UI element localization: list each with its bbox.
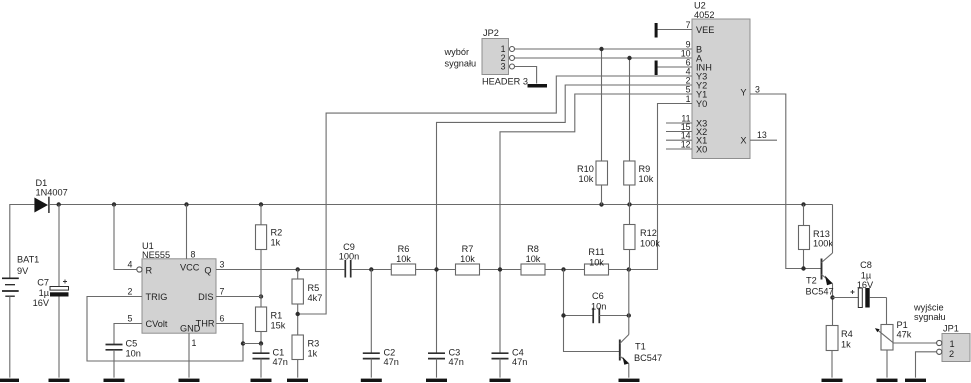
svg-text:1N4007: 1N4007 — [36, 188, 68, 198]
node B-R10 — [599, 47, 603, 51]
svg-text:1µ: 1µ — [39, 288, 50, 298]
wire 9V rail — [49, 204, 833, 206]
svg-text:Q: Q — [204, 266, 211, 276]
ground C1 — [251, 379, 272, 382]
label wybor sygnalu — [444, 47, 477, 69]
resistor R8 — [521, 244, 545, 275]
wire JP1 pin2 to ground — [916, 352, 937, 378]
svg-text:4: 4 — [128, 260, 133, 270]
svg-text:6: 6 — [220, 314, 225, 324]
svg-text:4052: 4052 — [694, 10, 714, 20]
ground JP1 — [905, 379, 926, 382]
pin circle JP1-2 — [937, 349, 942, 354]
svg-text:16V: 16V — [33, 298, 50, 308]
svg-text:100k: 100k — [813, 239, 833, 249]
ground P1 — [877, 379, 898, 382]
svg-text:Y0: Y0 — [696, 99, 707, 109]
label wyjscie sygnalu — [913, 303, 946, 323]
svg-text:BC547: BC547 — [634, 353, 662, 363]
node T2 emitter-C8 — [830, 295, 834, 299]
svg-text:CVolt: CVolt — [146, 319, 168, 329]
svg-text:sygnału: sygnału — [914, 312, 946, 322]
svg-text:R10: R10 — [577, 164, 594, 174]
node rail-pin4 — [112, 202, 116, 206]
wire R8 node down to T1 base — [564, 270, 620, 352]
svg-text:wyjście: wyjście — [913, 303, 944, 313]
svg-text:GND: GND — [180, 324, 201, 334]
svg-text:7: 7 — [220, 287, 225, 297]
node R13-T2 base — [801, 266, 805, 270]
svg-text:R6: R6 — [398, 244, 410, 254]
ground C5 — [104, 379, 125, 382]
svg-text:VCC: VCC — [180, 263, 200, 273]
svg-text:47n: 47n — [512, 357, 527, 367]
node Q-R5 — [296, 267, 300, 271]
svg-text:X0: X0 — [696, 145, 707, 155]
svg-text:2: 2 — [128, 287, 133, 297]
svg-text:13: 13 — [757, 130, 767, 140]
wire Y0 to T1 collector node — [629, 104, 692, 270]
wire Y2 to filter node 2 and C3 — [437, 85, 693, 353]
wire TRIG THR loop — [87, 297, 243, 362]
wire tap to C1 — [243, 343, 261, 345]
wire Q output line — [216, 269, 629, 271]
wire JP2 pin3 to ground — [515, 67, 537, 84]
svg-text:D1: D1 — [36, 178, 48, 188]
svg-text:JP1: JP1 — [943, 324, 959, 334]
svg-text:1: 1 — [950, 339, 955, 349]
node rail-R9-R12 — [627, 202, 631, 206]
svg-text:VEE: VEE — [696, 25, 714, 35]
wire A select — [515, 57, 693, 59]
node R6-R7-C3 — [434, 267, 438, 271]
svg-text:C7: C7 — [37, 278, 49, 288]
svg-text:R13: R13 — [813, 229, 830, 239]
ground R4 — [822, 379, 843, 382]
svg-text:3: 3 — [501, 62, 506, 72]
svg-text:R12: R12 — [640, 228, 657, 238]
svg-text:R1: R1 — [271, 311, 283, 321]
svg-text:10n: 10n — [126, 349, 141, 359]
svg-text:100n: 100n — [339, 251, 359, 261]
resistor R4 — [826, 326, 853, 378]
ground C3 — [426, 379, 447, 382]
svg-text:R: R — [146, 266, 153, 276]
svg-text:15k: 15k — [271, 321, 286, 331]
wire pin X2 stub — [666, 131, 692, 133]
node DIS-R1 — [259, 294, 263, 298]
wire Y3 to R5-R3 node — [298, 76, 692, 314]
resistor R7 — [456, 244, 480, 275]
svg-text:R4: R4 — [841, 329, 853, 339]
capacitor C7 — [33, 205, 69, 378]
transistor T2 — [806, 205, 834, 326]
svg-text:1k: 1k — [841, 340, 851, 350]
connector JP2 — [482, 28, 528, 87]
ground C7 — [49, 379, 70, 382]
wire Y1 to filter node 3 and C4 — [500, 94, 692, 353]
svg-text:1: 1 — [686, 94, 691, 104]
wire Y common to T2 base — [750, 94, 822, 269]
svg-text:10k: 10k — [579, 174, 594, 184]
capacitor C3 — [428, 348, 464, 378]
node R7-R8-C4 — [498, 267, 502, 271]
svg-text:R11: R11 — [588, 247, 604, 257]
node C6 left — [561, 313, 565, 317]
svg-text:8: 8 — [191, 250, 196, 260]
capacitor C8 — [833, 260, 887, 308]
svg-text:C2: C2 — [384, 348, 396, 358]
svg-text:Y1: Y1 — [696, 90, 707, 100]
svg-text:C4: C4 — [512, 348, 524, 358]
svg-text:C1: C1 — [273, 348, 285, 358]
node R1-C1 — [259, 341, 263, 345]
wire B select — [515, 48, 693, 50]
svg-text:3: 3 — [755, 85, 760, 95]
pin circle JP2-1 — [510, 47, 515, 52]
resistor R5 — [292, 270, 322, 336]
ground T1 — [619, 379, 640, 382]
resistor R2 — [256, 205, 283, 308]
svg-text:1µ: 1µ — [861, 271, 872, 281]
svg-text:10k: 10k — [396, 254, 411, 264]
wire pin X1 stub — [666, 139, 692, 141]
svg-text:10n: 10n — [591, 302, 606, 312]
svg-text:T2: T2 — [806, 276, 817, 286]
svg-text:9V: 9V — [17, 266, 29, 276]
capacitor C5 — [106, 339, 141, 378]
capacitor C4 — [492, 348, 528, 378]
svg-text:U2: U2 — [694, 1, 706, 11]
wire X common stub — [750, 139, 777, 141]
resistor R3 — [292, 335, 319, 378]
svg-text:R7: R7 — [462, 244, 474, 254]
wire DIS — [216, 296, 261, 298]
node rail-R2 — [259, 202, 263, 206]
IC U2 4052 — [681, 1, 767, 159]
svg-text:X: X — [740, 136, 746, 146]
resistor R13 — [799, 205, 834, 269]
svg-text:47n: 47n — [449, 357, 464, 367]
svg-text:10k: 10k — [589, 257, 604, 267]
svg-text:1k: 1k — [271, 238, 281, 248]
node R8-R11 — [561, 267, 565, 271]
capacitor C9 — [339, 242, 359, 278]
wire VCC pin8 — [186, 205, 188, 259]
svg-text:R9: R9 — [639, 164, 651, 174]
wire pin X0 stub — [666, 148, 692, 150]
svg-text:100k: 100k — [640, 239, 660, 249]
resistor R1 — [256, 307, 286, 344]
svg-text:47n: 47n — [273, 357, 288, 367]
capacitor C6 — [564, 291, 629, 323]
node rail-C7 — [57, 202, 61, 206]
svg-text:12: 12 — [681, 140, 691, 150]
svg-text:wybór: wybór — [444, 47, 470, 57]
wire pin X3 stub — [666, 122, 692, 124]
power bar INH — [655, 61, 658, 76]
node rail-R10 — [599, 202, 603, 206]
diode D1 — [34, 178, 67, 213]
pin 4 inversion circle — [137, 267, 142, 272]
pin circle JP1-1 — [937, 340, 942, 345]
svg-text:R5: R5 — [308, 283, 320, 293]
svg-text:7: 7 — [686, 20, 691, 30]
node rail-R13 — [801, 202, 805, 206]
capacitor C2 — [363, 270, 399, 378]
svg-text:Y: Y — [740, 88, 746, 98]
power bar VEE — [655, 23, 658, 38]
pin circle JP2-2 — [510, 56, 515, 61]
ground R3 — [287, 379, 308, 382]
ground U1 — [179, 379, 200, 382]
capacitor C1 — [253, 344, 288, 378]
wire VEE pin7 — [657, 29, 692, 31]
svg-text:T1: T1 — [635, 342, 646, 352]
svg-text:C6: C6 — [592, 291, 604, 301]
svg-text:HEADER 3: HEADER 3 — [482, 77, 528, 87]
svg-text:5: 5 — [686, 85, 691, 95]
svg-text:JP2: JP2 — [483, 28, 499, 38]
svg-text:47n: 47n — [384, 357, 399, 367]
svg-text:R3: R3 — [308, 339, 320, 349]
svg-text:5: 5 — [128, 314, 133, 324]
IC U1 NE555 — [128, 241, 225, 348]
potentiometer P1 — [875, 298, 937, 378]
node R5-R3-Y3 — [296, 312, 300, 316]
svg-text:DIS: DIS — [198, 292, 213, 302]
battery BAT1 — [2, 255, 39, 297]
svg-text:R2: R2 — [271, 228, 283, 238]
svg-text:NE555: NE555 — [142, 250, 170, 260]
wire battery to ground — [9, 296, 11, 377]
svg-text:10k: 10k — [460, 254, 475, 264]
svg-text:3: 3 — [220, 260, 225, 270]
battery positive wire — [10, 205, 35, 279]
resistor R10 — [577, 49, 608, 205]
svg-text:R8: R8 — [527, 244, 539, 254]
svg-text:2: 2 — [949, 349, 954, 359]
node A-R9 — [627, 56, 631, 60]
wire CVolt to C5 — [114, 324, 142, 345]
svg-text:C8: C8 — [860, 260, 872, 270]
svg-text:TRIG: TRIG — [146, 292, 168, 302]
node C6 right — [627, 313, 631, 317]
connector JP1 — [942, 324, 970, 362]
wire INH pin6 — [657, 66, 692, 68]
svg-text:4k7: 4k7 — [308, 293, 323, 303]
svg-text:47k: 47k — [897, 330, 912, 340]
svg-text:1k: 1k — [308, 349, 318, 359]
svg-text:BAT1: BAT1 — [17, 255, 39, 265]
resistor R11 — [585, 247, 609, 275]
node THR-C1 tap — [241, 341, 245, 345]
ground battery — [0, 379, 19, 382]
resistor R6 — [391, 244, 415, 275]
node R11-R12-Y0 — [627, 267, 631, 271]
resistor R12 — [624, 205, 661, 270]
svg-text:10k: 10k — [526, 254, 541, 264]
svg-text:1: 1 — [192, 338, 197, 348]
transistor T1 — [620, 270, 662, 378]
svg-text:sygnału: sygnału — [445, 59, 477, 69]
svg-text:BC547: BC547 — [806, 287, 834, 297]
pin circle JP2-3 — [510, 64, 515, 69]
wire reset pin4 — [114, 205, 137, 270]
resistor R9 — [624, 58, 654, 205]
ground bar JP2 — [528, 84, 548, 88]
node C9-R6-C2 — [369, 267, 373, 271]
svg-text:P1: P1 — [897, 320, 908, 330]
svg-text:C5: C5 — [126, 339, 138, 349]
svg-text:C3: C3 — [449, 348, 461, 358]
ground C4 — [490, 379, 511, 382]
ground C2 — [361, 379, 382, 382]
wire GND pin1 — [188, 333, 190, 377]
svg-text:16V: 16V — [857, 280, 874, 290]
node rail-VCC — [184, 202, 188, 206]
svg-text:10k: 10k — [639, 174, 654, 184]
